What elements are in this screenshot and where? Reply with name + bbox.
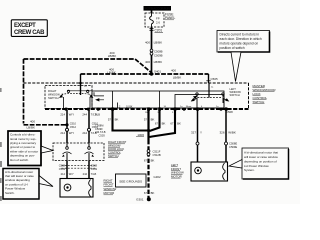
fuse panel dashed box bbox=[145, 13, 164, 27]
connector C505 drop bbox=[206, 74, 218, 89]
label 400 LB/BK bbox=[145, 60, 162, 64]
callout: bi-directional motor LH switch bbox=[3, 169, 53, 200]
svg-text:400: 400 bbox=[145, 60, 150, 64]
wire 400 LB/BK to right door switch bbox=[24, 124, 68, 126]
connector bus bottom of master switch bbox=[45, 108, 249, 110]
svg-text:will lower or raise window: will lower or raise window bbox=[244, 155, 279, 159]
svg-text:RIGHT FRONT: RIGHT FRONT bbox=[108, 140, 127, 144]
splice 1006 bbox=[136, 129, 150, 137]
wire 400 LB/BK master feed bbox=[81, 73, 209, 75]
wire 214 W/Y to right door bbox=[66, 110, 68, 143]
label 67 BK bbox=[144, 158, 155, 162]
svg-text:BK: BK bbox=[162, 121, 166, 125]
svg-text:C509B: C509B bbox=[154, 53, 163, 57]
fuse F2.6 symbol bbox=[150, 13, 154, 27]
wires from right door switch to motor bbox=[66, 161, 68, 179]
label RIGHT FRONT WINDOW DOOR LOCK CONTROL SWITCH bbox=[108, 140, 127, 158]
svg-text:G302: G302 bbox=[154, 175, 161, 179]
svg-text:LB/BK: LB/BK bbox=[154, 41, 163, 45]
svg-text:BK: BK bbox=[151, 158, 155, 162]
svg-text:10 BK: 10 BK bbox=[126, 106, 133, 109]
svg-text:depending on position of: depending on position of bbox=[244, 159, 277, 163]
callout: controls a bi-directional motor bbox=[8, 131, 53, 166]
svg-text:BK: BK bbox=[151, 191, 155, 195]
svg-text:C512: C512 bbox=[70, 125, 77, 129]
connectors C511F C512B bbox=[147, 150, 161, 157]
wire 400 LB/BK left vertical bbox=[23, 59, 25, 124]
ground wire 67 BK elbow 3 bbox=[150, 109, 176, 137]
svg-text:400: 400 bbox=[30, 120, 35, 124]
svg-text:C509F: C509F bbox=[95, 127, 103, 131]
right window switch contacts bbox=[60, 82, 93, 109]
wire 400 LB/BK vertical from fuse bbox=[151, 11, 153, 75]
connectors C508E C509E bbox=[196, 141, 237, 148]
ground wire 57 BK elbow bbox=[113, 109, 148, 131]
svg-text:C511F: C511F bbox=[153, 150, 161, 154]
svg-text:326: 326 bbox=[219, 130, 224, 134]
svg-text:244: 244 bbox=[83, 172, 88, 176]
svg-text:C503: C503 bbox=[99, 134, 106, 138]
svg-text:Y: Y bbox=[200, 130, 202, 134]
label MASTER WINDOW/DOOR LOCK CONTROL SWITCH bbox=[253, 84, 277, 104]
right front window motor box bbox=[60, 179, 93, 198]
wire 326 W/BK bbox=[225, 109, 227, 162]
svg-text:ition of switch.: ition of switch. bbox=[10, 158, 29, 162]
svg-text:RIGHT: RIGHT bbox=[48, 89, 57, 93]
svg-text:A bi-directional motor that: A bi-directional motor that bbox=[244, 151, 278, 155]
bank inner box bbox=[164, 95, 225, 109]
callout: directs current note bbox=[217, 31, 270, 82]
svg-text:LB/BK: LB/BK bbox=[154, 60, 163, 64]
wire 244 T/LB to right door bbox=[88, 110, 90, 143]
svg-text:MOTOR: MOTOR bbox=[171, 174, 182, 178]
label LEFT FRONT WINDOW MOTOR bbox=[171, 163, 184, 178]
svg-text:C508E: C508E bbox=[229, 141, 237, 145]
svg-text:67: 67 bbox=[170, 121, 174, 125]
right front window switch dashed box bbox=[53, 143, 104, 161]
ground G301 bbox=[136, 197, 151, 201]
bank divider bbox=[112, 91, 114, 108]
svg-text:67: 67 bbox=[144, 158, 148, 162]
right window switch dashed box bbox=[45, 86, 92, 109]
svg-text:WINDOW: WINDOW bbox=[48, 92, 60, 96]
svg-text:2.6: 2.6 bbox=[156, 21, 160, 25]
svg-text:motors operate depend on: motors operate depend on bbox=[220, 42, 259, 46]
svg-text:C509: C509 bbox=[91, 167, 98, 171]
connectors C510 C512 bbox=[66, 122, 99, 132]
left window switch rocker bbox=[192, 83, 229, 109]
svg-text:Directs current to motors in: Directs current to motors in bbox=[220, 33, 260, 37]
svg-text:S401: S401 bbox=[154, 69, 161, 73]
bank switch glyph 1 bbox=[94, 92, 104, 101]
svg-text:BK: BK bbox=[177, 121, 181, 125]
svg-text:LB/BK: LB/BK bbox=[108, 54, 117, 58]
svg-text:SWITCH: SWITCH bbox=[230, 93, 240, 97]
svg-text:BK: BK bbox=[115, 118, 119, 122]
label RIGHT FRONT WINDOW MOTOR bbox=[104, 179, 117, 196]
label 400 LB/BK bbox=[145, 41, 162, 45]
bus tick junctions bbox=[65, 107, 228, 110]
label 67 BK bbox=[144, 191, 155, 195]
inline connector C508B/C509B bbox=[150, 49, 163, 57]
power header bar HOT IN ACC OR RUN bbox=[144, 6, 172, 11]
svg-text:SEE GROUNDS: SEE GROUNDS bbox=[119, 179, 142, 183]
SEE GROUNDS box bbox=[116, 174, 147, 187]
connector C201 bbox=[150, 29, 164, 33]
svg-text:W/Y: W/Y bbox=[69, 112, 74, 116]
bank switch glyph 2 bbox=[118, 103, 133, 109]
svg-text:244: 244 bbox=[82, 112, 87, 116]
svg-text:position of switch: position of switch bbox=[220, 46, 245, 50]
svg-text:HOT IN ACC OR RUN: HOT IN ACC OR RUN bbox=[145, 7, 170, 11]
svg-text:DOOR LOCK: DOOR LOCK bbox=[108, 147, 124, 151]
ground wire 67 BK elbow 2 bbox=[150, 109, 160, 131]
svg-text:244 T/LB: 244 T/LB bbox=[95, 130, 106, 134]
svg-text:LB/BK: LB/BK bbox=[173, 75, 182, 79]
switch bank thin box bbox=[92, 91, 224, 108]
svg-text:214: 214 bbox=[60, 131, 65, 135]
svg-text:400: 400 bbox=[145, 41, 150, 45]
svg-text:MOTOR: MOTOR bbox=[104, 191, 115, 195]
splice S401 bbox=[150, 69, 162, 75]
door boundary connectors C508 C509 bbox=[59, 164, 98, 172]
svg-text:BK: BK bbox=[151, 118, 155, 122]
svg-text:CONTROL: CONTROL bbox=[108, 150, 122, 154]
note box EXCEPT CREW CAB bbox=[11, 20, 47, 37]
svg-text:327: 327 bbox=[191, 130, 196, 134]
wire 400 LB/BK upper branch bbox=[24, 59, 152, 73]
wire 327 Y bbox=[197, 109, 199, 162]
scan edge smudges bbox=[0, 88, 2, 201]
bus pin labels bbox=[145, 106, 219, 114]
label FUSE PANEL bbox=[165, 13, 175, 21]
master switch dashed box top bbox=[24, 82, 249, 84]
master switch dashed box right edge bbox=[248, 83, 250, 109]
svg-text:G301: G301 bbox=[136, 198, 144, 202]
svg-text:C512B: C512B bbox=[153, 153, 161, 157]
svg-text:W/Y: W/Y bbox=[69, 172, 74, 176]
right door switch glyph right bbox=[85, 143, 95, 161]
svg-text:C508: C508 bbox=[226, 110, 233, 114]
connector label stack left of ground elbow bbox=[95, 112, 106, 137]
svg-text:67: 67 bbox=[155, 121, 159, 125]
callout: bi-directional motor LH system bbox=[229, 148, 289, 179]
svg-text:SWITCH: SWITCH bbox=[48, 96, 59, 100]
label LEFT WINDOW SWITCH bbox=[230, 87, 242, 97]
svg-text:30am: 30am bbox=[186, 106, 192, 108]
svg-text:each door. Direction in which: each door. Direction in which bbox=[220, 37, 262, 41]
svg-text:57: 57 bbox=[144, 118, 148, 122]
svg-text:LB/BK: LB/BK bbox=[27, 126, 36, 130]
svg-text:Switch.: Switch. bbox=[5, 191, 15, 195]
wire entering switch at x=80.5 bbox=[80, 74, 82, 95]
svg-text:214: 214 bbox=[61, 172, 66, 176]
svg-text:W/Y: W/Y bbox=[69, 131, 74, 135]
svg-text:244: 244 bbox=[82, 131, 87, 135]
svg-text:LB/BK: LB/BK bbox=[107, 71, 116, 75]
svg-text:LH Power Window: LH Power Window bbox=[244, 164, 270, 168]
svg-text:CREW CAB: CREW CAB bbox=[14, 30, 45, 36]
svg-text:W/BK: W/BK bbox=[228, 130, 236, 134]
svg-text:67: 67 bbox=[144, 191, 148, 195]
svg-text:214: 214 bbox=[60, 112, 65, 116]
svg-text:400: 400 bbox=[171, 69, 176, 73]
right door switch glyph left bbox=[62, 143, 72, 161]
svg-text:C510: C510 bbox=[70, 122, 77, 126]
svg-text:C508: C508 bbox=[59, 164, 66, 168]
svg-text:57: 57 bbox=[108, 118, 112, 122]
svg-text:T/LB: T/LB bbox=[95, 112, 101, 116]
svg-text:C508: C508 bbox=[91, 164, 98, 168]
svg-text:EXCEPT: EXCEPT bbox=[14, 23, 36, 29]
svg-text:C509E: C509E bbox=[229, 145, 237, 149]
svg-text:C509: C509 bbox=[59, 167, 66, 171]
left front window motor box bbox=[191, 162, 228, 181]
svg-text:System.: System. bbox=[244, 168, 255, 172]
ground wire 57 BK main bbox=[147, 109, 149, 140]
svg-text:C505: C505 bbox=[211, 77, 219, 81]
bank divider bbox=[159, 91, 161, 108]
svg-text:T/LB: T/LB bbox=[91, 172, 97, 176]
